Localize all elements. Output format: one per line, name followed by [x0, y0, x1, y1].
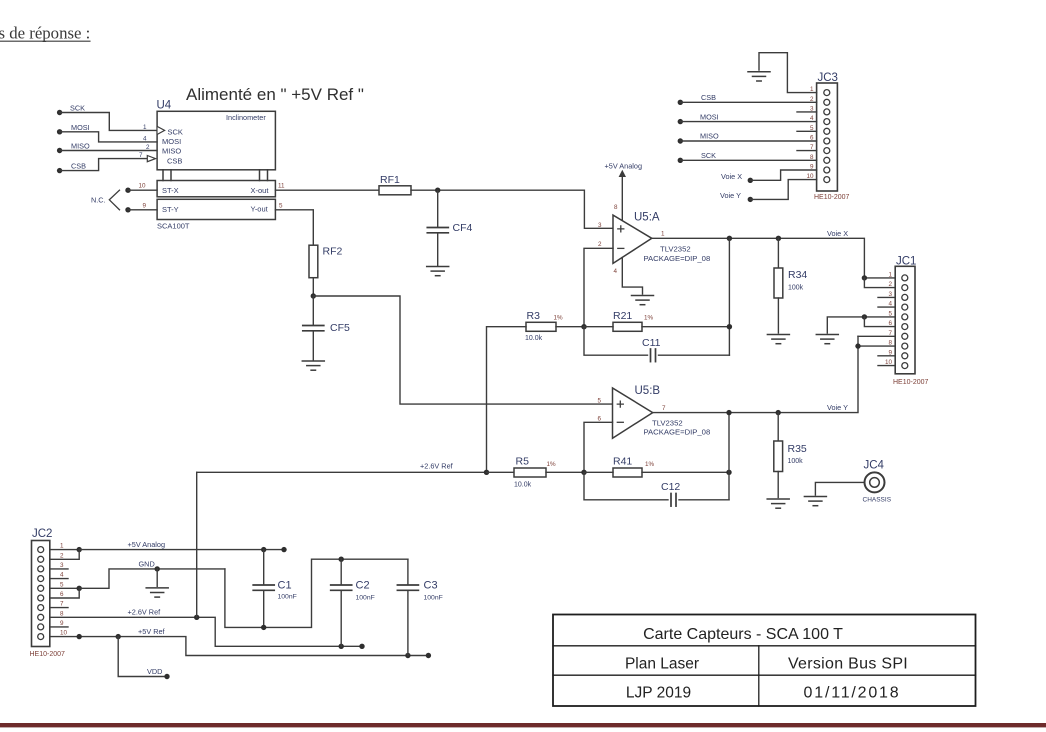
JC1 pin numbers 1-10: [885, 271, 893, 366]
svg-text:100k: 100k: [788, 458, 804, 465]
svg-text:CSB: CSB: [71, 161, 86, 170]
wire R21 right: [642, 326, 729, 328]
capacitor C12: [584, 472, 729, 506]
wire Voie X to JC3 pin 9: [750, 170, 816, 180]
wire SCK to JC3 pin 8: [680, 159, 816, 161]
svg-text:Inclinometer: Inclinometer: [226, 113, 266, 122]
node JC2 pin1/2: [77, 547, 82, 552]
svg-text:9: 9: [60, 620, 64, 627]
svg-text:Carte Capteurs - SCA 100 T: Carte Capteurs - SCA 100 T: [643, 626, 843, 643]
svg-text:ST-X: ST-X: [162, 186, 179, 195]
svg-text:+5V Analog: +5V Analog: [128, 540, 166, 549]
svg-text:C12: C12: [661, 481, 680, 493]
svg-text:1%: 1%: [644, 314, 654, 321]
wire CSB to U4 pin 7: [60, 159, 148, 171]
svg-text:LJP 2019: LJP 2019: [626, 685, 691, 702]
wire JC2 pin 6: [50, 588, 79, 598]
node SCK (input to U4): [57, 104, 85, 116]
svg-text:PACKAGE=DIP_08: PACKAGE=DIP_08: [644, 254, 711, 263]
svg-text:11: 11: [278, 183, 285, 190]
wire feedback vertical: [728, 238, 730, 355]
wire U5:B feedback vertical: [728, 413, 730, 500]
JC2 pin circles: [38, 547, 44, 640]
svg-text:+5V Ref: +5V Ref: [138, 627, 166, 636]
svg-text:MOSI: MOSI: [71, 123, 90, 132]
capacitor C11: [584, 327, 729, 362]
wire JC3 pin 1 to ground: [759, 53, 817, 93]
svg-text:Version Bus SPI: Version Bus SPI: [788, 656, 908, 673]
node C1 bottom: [261, 625, 266, 630]
svg-text:1: 1: [143, 124, 147, 131]
ground at JC1 pin 5/6: [816, 335, 838, 344]
svg-text:CHASSIS: CHASSIS: [863, 497, 892, 504]
svg-text:2: 2: [598, 241, 602, 248]
svg-text:JC4: JC4: [864, 460, 885, 472]
wire MISO to JC3 pin 6: [680, 140, 816, 142]
resistor R35: [774, 413, 807, 498]
ground below CF4: [427, 267, 449, 276]
wire R41 left: [584, 471, 613, 473]
svg-text:HE10-2007: HE10-2007: [893, 379, 929, 386]
svg-text:01/11/2018: 01/11/2018: [804, 685, 901, 702]
capacitor CF5: [303, 296, 350, 361]
ground below CF5: [302, 361, 324, 370]
svg-text:JC3: JC3: [818, 72, 838, 84]
svg-text:4: 4: [143, 135, 147, 142]
svg-text:R35: R35: [788, 443, 807, 455]
ground below JC4: [804, 497, 826, 506]
JC3 pin 3 stub: [797, 111, 817, 113]
U4 ST-Y / Y-out row labels: [162, 205, 269, 215]
JC1 pin 3 stub: [878, 296, 895, 298]
JC3 pin numbers 1-10: [806, 86, 814, 180]
inclinometer U4 body: [157, 111, 275, 219]
wire JC2 pin 1: [50, 549, 79, 551]
svg-text:RF1: RF1: [380, 174, 400, 186]
capacitor CF4: [427, 190, 472, 266]
svg-text:1%: 1%: [645, 461, 655, 468]
node U5:B output feedback: [726, 410, 731, 415]
svg-text:7: 7: [139, 152, 143, 159]
net +2.6V Ref wire from JC2 pin 8: [50, 608, 362, 647]
wire JC1 pin 2: [864, 278, 895, 288]
node C1 top: [261, 547, 266, 552]
svg-text:R3: R3: [527, 310, 541, 322]
svg-text:+2.6V Ref: +2.6V Ref: [420, 461, 454, 470]
svg-text:3: 3: [60, 562, 64, 569]
JC2 pin 4 stub: [50, 578, 68, 580]
svg-text:100nF: 100nF: [356, 595, 375, 602]
ground below R34: [767, 335, 789, 344]
capacitor C3: [397, 559, 442, 655]
svg-text:MISO: MISO: [162, 146, 181, 155]
svg-text:CSB: CSB: [701, 93, 716, 102]
wire U5:B output (Voie Y): [653, 336, 858, 412]
svg-text:Voie Y: Voie Y: [720, 191, 741, 200]
node +2.6V/R3 feed: [484, 470, 489, 475]
wire ST-Y pin 9: [128, 209, 157, 211]
wire JC1 pin 6: [864, 317, 895, 327]
node MISO (JC3): [678, 132, 719, 144]
node +2.6V end: [359, 644, 364, 649]
wire U5:A - input to feedback node: [584, 248, 613, 326]
wire GND stub down: [156, 569, 158, 586]
svg-text:MISO: MISO: [71, 142, 90, 151]
svg-text:4: 4: [60, 572, 64, 579]
wire U5:A output (Voie X): [652, 238, 895, 278]
U4 pin 1 clock mark: [158, 127, 165, 135]
svg-text:JC1: JC1: [896, 256, 916, 268]
svg-text:HE10-2007: HE10-2007: [814, 194, 850, 201]
node JC1 pin1 junction: [862, 275, 867, 280]
svg-text:C3: C3: [424, 580, 438, 592]
node SCK (JC3): [678, 151, 717, 163]
U4 pin labels SCK MOSI MISO CSB: [162, 128, 183, 166]
wire R3 right to node: [556, 326, 584, 328]
wire +2.6V Ref riser vertical: [196, 472, 198, 617]
JC2 pin numbers 1-10: [60, 543, 68, 637]
svg-text:1: 1: [888, 271, 892, 278]
JC2 pin 9 stub: [50, 626, 68, 628]
svg-text:SCK: SCK: [70, 104, 85, 113]
wire RF2 bottom to node: [312, 278, 314, 296]
svg-text:1%: 1%: [554, 314, 564, 321]
node MISO (input to U4): [57, 142, 90, 154]
wire JC1 pin 5 to ground: [827, 317, 895, 333]
wire Voie Y to JC3 pin 10: [750, 180, 816, 200]
JC3 pin 7 stub: [797, 150, 817, 152]
svg-text:100nF: 100nF: [424, 595, 443, 602]
wire JC2 pin 5: [50, 587, 79, 589]
svg-text:SCA100T: SCA100T: [157, 222, 190, 231]
JC1 pin 9 stub: [878, 355, 895, 357]
svg-text:Y-out: Y-out: [251, 205, 269, 214]
node pin10 a: [77, 634, 82, 639]
wire R21 left: [584, 326, 613, 328]
wire RF1 to U5:A + input: [411, 190, 613, 228]
node JC1 pin5 junction: [862, 314, 867, 319]
connector JC3: [814, 72, 850, 201]
resistor R3: [525, 310, 563, 342]
svg-text:8: 8: [614, 204, 618, 211]
bottom page rule: [0, 723, 1046, 727]
svg-text:Voie X: Voie X: [721, 172, 742, 181]
net GND wire: [79, 560, 225, 589]
wire GND to capacitor rails: [225, 559, 408, 627]
svg-text:+5V Analog: +5V Analog: [605, 162, 643, 171]
ground at JC3 pin 1: [748, 72, 770, 81]
svg-text:R21: R21: [613, 310, 632, 322]
svg-text:7: 7: [662, 405, 666, 412]
svg-text:2: 2: [146, 144, 150, 151]
svg-text:ST-Y: ST-Y: [162, 205, 179, 214]
node CSB (input to U4): [57, 161, 86, 173]
svg-text:MOSI: MOSI: [162, 137, 181, 146]
ground below U5:A: [632, 296, 654, 305]
svg-text:10: 10: [60, 630, 68, 637]
svg-text:RF2: RF2: [323, 246, 343, 258]
svg-text:JC2: JC2: [32, 528, 52, 540]
svg-text:2: 2: [60, 552, 64, 559]
svg-text:8: 8: [60, 610, 64, 617]
svg-text:7: 7: [60, 601, 64, 608]
svg-text:TLV2352: TLV2352: [660, 245, 691, 254]
svg-text:5: 5: [598, 398, 602, 405]
JC2 pin 3 stub: [50, 568, 68, 570]
connector JC2: [30, 528, 66, 658]
node CSB (JC3): [678, 93, 717, 105]
svg-text:PACKAGE=DIP_08: PACKAGE=DIP_08: [644, 428, 711, 437]
svg-text:VDD: VDD: [147, 667, 162, 676]
node MOSI (JC3): [678, 112, 719, 124]
node C3 bottom: [405, 653, 410, 658]
wire X-out to RF1: [275, 189, 379, 191]
node MOSI (input to U4): [57, 123, 90, 135]
svg-text:1: 1: [661, 231, 665, 238]
svg-text:1: 1: [60, 543, 64, 550]
resistor RF2: [309, 245, 342, 278]
svg-text:Alimenté en " +5V Ref ": Alimenté en " +5V Ref ": [186, 85, 364, 104]
power +5V Analog to U5:A pin 8: [605, 162, 643, 221]
svg-text:C1: C1: [278, 580, 292, 592]
svg-text:C11: C11: [642, 337, 661, 349]
svg-text:GND: GND: [139, 560, 155, 569]
wire node to U5:B + input: [313, 296, 612, 404]
ground below R35: [767, 499, 789, 508]
resistor R21: [613, 310, 654, 331]
N.C. bracket: [91, 190, 120, 210]
svg-text:N.C.: N.C.: [91, 195, 106, 204]
svg-text:1%: 1%: [547, 461, 557, 468]
node Voie Y (JC3): [720, 191, 753, 202]
node +2.6V Ref riser: [194, 615, 199, 620]
wire node to R5: [487, 471, 515, 473]
U4 pin 7 triangle mark: [147, 156, 155, 162]
svg-text:TLV2352: TLV2352: [652, 419, 683, 428]
JC1 pin 10 stub: [878, 365, 895, 367]
title block table: [553, 615, 976, 707]
op-amp U5:B: [598, 385, 711, 438]
node JC1 pin8 junction: [855, 343, 860, 348]
wire R41 right: [642, 471, 729, 473]
connector JC4: [863, 460, 892, 504]
JC3 pin circles: [824, 90, 830, 183]
wire U5:A pin 4 to ground: [622, 258, 642, 294]
wire +2.6V Ref horizontal: [197, 471, 487, 473]
net +5V Analog wire: [79, 540, 284, 550]
svg-text:6: 6: [598, 416, 602, 423]
node +5V Analog end: [281, 547, 286, 552]
svg-text:10: 10: [139, 183, 147, 190]
svg-text:U5:B: U5:B: [635, 385, 661, 397]
svg-text:4: 4: [614, 268, 618, 275]
resistor R41: [613, 456, 655, 478]
svg-text:R34: R34: [788, 269, 807, 281]
node +5V Ref end: [426, 653, 431, 658]
svg-text:9: 9: [143, 202, 147, 209]
JC1 pin circles: [902, 275, 908, 369]
wire R5 right to node: [546, 471, 584, 473]
wire JC4 to ground: [815, 482, 864, 495]
wire MOSI to U4 pin 4: [60, 132, 157, 142]
wire JC1 pin 8: [858, 345, 895, 347]
svg-text:6: 6: [60, 591, 64, 598]
wire JC1 pin 7: [858, 335, 895, 337]
svg-text:U5:A: U5:A: [634, 212, 660, 224]
ground at JC2 GND: [146, 588, 168, 597]
svg-text:10.0k: 10.0k: [525, 335, 543, 342]
node ST-X N.C.: [125, 188, 130, 193]
wire SCK to U4 pin 1: [60, 113, 157, 131]
wire MOSI to JC3 pin 4: [680, 121, 816, 123]
op-amp U5:A: [598, 212, 710, 276]
JC3 pin 5 stub: [797, 130, 817, 132]
node VDD end: [164, 674, 169, 679]
node GND symbol junction: [155, 566, 160, 571]
svg-text:s de réponse :: s de réponse :: [0, 24, 90, 43]
node ST-Y N.C.: [125, 207, 130, 212]
node C2 top: [339, 557, 344, 562]
JC2 pin 7 stub: [50, 607, 68, 609]
svg-text:100nF: 100nF: [278, 594, 297, 601]
wire R3 left from +2.6V Ref: [487, 327, 527, 473]
svg-text:R41: R41: [613, 456, 632, 468]
resistor R34: [774, 238, 807, 333]
node R5/R41/C12: [581, 470, 586, 475]
svg-text:+2.6V Ref: +2.6V Ref: [128, 608, 162, 617]
resistor RF1: [379, 174, 411, 195]
svg-text:SCK: SCK: [168, 128, 183, 137]
svg-text:5: 5: [60, 581, 64, 588]
node RF1/CF4 junction: [435, 188, 440, 193]
JC1 pin 4 stub: [878, 306, 895, 308]
capacitor C2: [331, 559, 375, 646]
svg-text:CF4: CF4: [453, 222, 473, 234]
wire Y-out to RF2: [275, 210, 313, 245]
net VDD wire: [118, 637, 166, 677]
svg-text:C2: C2: [356, 580, 370, 592]
node R41 right: [726, 470, 731, 475]
wire CSB to JC3 pin 2: [680, 101, 816, 103]
node R35 top: [776, 410, 781, 415]
svg-text:Voie X: Voie X: [827, 229, 848, 238]
svg-text:MOSI: MOSI: [700, 112, 719, 121]
svg-text:SCK: SCK: [701, 151, 716, 160]
wire U5:B - input to feedback node: [584, 422, 613, 472]
svg-text:MISO: MISO: [700, 132, 719, 141]
node output feedback: [727, 236, 732, 241]
U4 pin numbers 1 4 2 7: [139, 124, 150, 159]
svg-text:3: 3: [598, 222, 602, 229]
svg-text:Plan Laser: Plan Laser: [625, 656, 699, 673]
svg-text:HE10-2007: HE10-2007: [30, 651, 66, 658]
node R34 top: [776, 236, 781, 241]
node R3/R21/C11: [581, 324, 586, 329]
wire ST-X pin 10: [128, 189, 157, 191]
net +5V Ref wire from JC2 pin 10: [50, 627, 429, 656]
node Voie X (JC3): [721, 172, 753, 183]
node C2 bottom: [339, 644, 344, 649]
svg-text:R5: R5: [516, 456, 530, 468]
node RF2/CF5: [311, 293, 316, 298]
svg-text:5: 5: [279, 202, 283, 209]
svg-text:Voie Y: Voie Y: [827, 403, 848, 412]
capacitor C1: [253, 550, 297, 628]
wire MISO to U4 pin 2: [60, 150, 157, 152]
U4 ST-X / X-out row labels: [162, 186, 269, 195]
wire JC2 pin 2: [50, 550, 79, 560]
node VDD branch: [116, 634, 121, 639]
svg-text:CF5: CF5: [330, 322, 350, 334]
node R21 right: [727, 324, 732, 329]
node JC2 pin5/6: [77, 586, 82, 591]
heading text "s de réponse :": [0, 24, 90, 43]
svg-text:10.0k: 10.0k: [514, 482, 532, 489]
svg-text:X-out: X-out: [251, 186, 270, 195]
svg-text:U4: U4: [157, 100, 172, 112]
svg-text:CSB: CSB: [167, 157, 182, 166]
connector JC1: [893, 256, 929, 387]
svg-text:100k: 100k: [788, 285, 804, 292]
resistor R5: [514, 456, 556, 489]
